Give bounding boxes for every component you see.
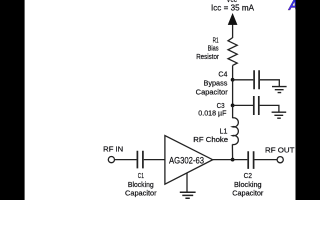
wire RF IN to C1 [115,159,137,161]
wire amp ground stem [186,173,188,192]
RF OUT terminal [277,157,283,163]
svg-text:Capacitor: Capacitor [232,189,264,198]
wire Vcc feed [232,22,234,38]
svg-text:Bypass: Bypass [204,79,228,88]
svg-text:Resistor: Resistor [196,52,219,61]
wire C3 to ground [260,105,279,111]
svg-text:Capacitor: Capacitor [125,189,157,198]
Vcc arrow [228,14,237,25]
svg-text:Blocking: Blocking [128,180,154,189]
wire C4 branch [233,79,254,81]
svg-text:C2: C2 [244,171,252,180]
svg-text:Icc = 35 mA: Icc = 35 mA [211,2,254,12]
wire L1 to output node [231,144,233,159]
node C4 junction [231,78,235,82]
wire C3 node to L1 [232,105,234,118]
capacitor C1 [137,151,143,169]
ground (amplifier) [180,192,196,198]
svg-text:C4: C4 [218,70,227,79]
black sidebar strip left [0,0,25,200]
svg-text:0.018 µF: 0.018 µF [198,108,227,117]
wire amp output to C2 [213,159,248,161]
wire C2 to RF OUT [254,159,277,161]
svg-text:C1: C1 [138,171,144,180]
RF IN terminal [108,157,114,163]
svg-text:RF IN: RF IN [103,145,123,154]
node output junction [231,158,235,162]
svg-text:RF Choke: RF Choke [193,135,228,144]
resistor R1 [228,38,237,66]
inductor L1 [232,118,238,145]
black sidebar strip right [296,0,320,200]
ground (C4) [272,87,287,93]
svg-text:RF OUT: RF OUT [265,145,295,154]
wire C3 branch [233,104,253,106]
capacitor C4 [254,70,259,89]
svg-text:Capacitor: Capacitor [196,87,229,96]
wire C1 to amplifier [144,159,165,161]
wire C4 to ground [260,80,279,86]
wire C4 node to C3 node [232,80,234,106]
svg-text:AG302-63: AG302-63 [169,155,204,166]
wire R1 to C4 node [232,65,234,79]
ground (C3) [272,112,287,118]
capacitor C3 [254,96,259,115]
capacitor C2 [248,151,253,169]
op-amp U1 AG302-63 [165,136,213,185]
node C3 junction [231,104,235,108]
